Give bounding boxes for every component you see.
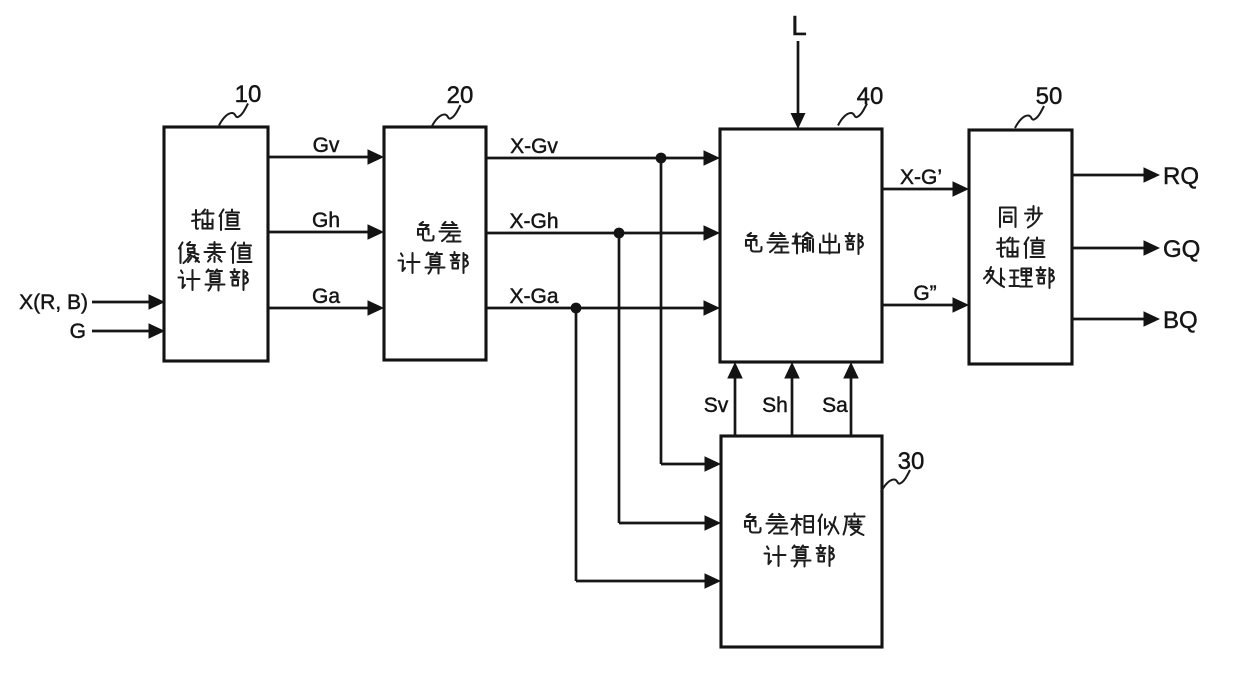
wire X-Ga with arrow into block 40 xyxy=(486,300,720,316)
wire X-Gv with arrow into block 40 xyxy=(486,150,720,166)
label X-Ga xyxy=(509,285,558,308)
wire Sa with up arrow into block 40 xyxy=(843,362,859,436)
output label GQ xyxy=(1163,236,1200,263)
svg-text:Gh: Gh xyxy=(312,209,340,232)
svg-text:Ga: Ga xyxy=(312,285,340,308)
block 50: synchronous interpolation processing unit (同步插值处理部) xyxy=(969,130,1072,364)
wire Gv with arrow xyxy=(268,149,384,165)
block 40: color difference output unit (色差输出部) xyxy=(720,129,882,362)
branch wire from X-Gv down and into block 30 xyxy=(661,158,721,472)
output wire GQ with arrow xyxy=(1072,240,1160,256)
svg-text:Sv: Sv xyxy=(704,394,729,417)
label Sa xyxy=(822,394,848,417)
svg-text:BQ: BQ xyxy=(1163,307,1198,334)
wire X-G&#8217; with arrow into block 50 xyxy=(882,181,969,197)
output label RQ xyxy=(1163,163,1199,190)
input label X(R, B) xyxy=(19,291,88,314)
svg-text:Gv: Gv xyxy=(313,134,340,157)
svg-text:X-Gh: X-Gh xyxy=(509,210,558,233)
branch wire from X-Gh down and into block 30 xyxy=(619,233,721,531)
svg-text:G: G xyxy=(70,320,86,343)
reference numeral 30 with leader xyxy=(881,448,924,492)
label Sv xyxy=(704,394,729,417)
branch wire from X-Ga down and into block 30 xyxy=(576,308,721,589)
output wire RQ with arrow xyxy=(1072,167,1160,183)
reference numeral 10 with leader xyxy=(219,81,261,126)
junction dot on X-Gv xyxy=(656,153,667,164)
label Gv xyxy=(313,134,340,157)
label X-Gh xyxy=(509,210,558,233)
svg-text:G”: G” xyxy=(913,282,936,305)
svg-text:30: 30 xyxy=(898,448,925,475)
input wire X(R, B) with arrow into block 10 xyxy=(92,294,165,310)
svg-text:X-Gv: X-Gv xyxy=(510,135,558,158)
wire Sh with up arrow into block 40 xyxy=(784,362,800,436)
label Ga xyxy=(312,285,340,308)
reference numeral 50 with leader xyxy=(1015,83,1062,128)
svg-text:X(R, B): X(R, B) xyxy=(19,291,88,314)
svg-text:GQ: GQ xyxy=(1163,236,1200,263)
label G&#8221; xyxy=(913,282,936,305)
svg-text:L: L xyxy=(791,10,807,41)
block 20: color difference calculation unit (色差计算部) xyxy=(384,127,486,360)
svg-text:10: 10 xyxy=(235,81,262,108)
input wire L with arrow into block 40 top xyxy=(791,41,806,129)
junction dot on X-Gh xyxy=(614,228,625,239)
reference numeral 20 with leader xyxy=(432,82,474,127)
reference numeral 40 with leader xyxy=(838,83,883,126)
svg-text:RQ: RQ xyxy=(1163,163,1199,190)
wire Gh with arrow xyxy=(268,224,384,240)
wire Sv with up arrow into block 40 xyxy=(727,362,743,436)
output label BQ xyxy=(1163,307,1198,334)
svg-text:Sh: Sh xyxy=(762,394,788,417)
svg-text:40: 40 xyxy=(857,83,884,110)
label X-Gv xyxy=(510,135,558,158)
wire G&#8221; with arrow into block 50 xyxy=(882,297,969,313)
label Gh xyxy=(312,209,340,232)
block 10: interpolated pixel value calculation unit (插值像素值计算部) xyxy=(164,127,268,361)
input label G xyxy=(70,320,86,343)
label Sh xyxy=(762,394,788,417)
svg-text:X-Ga: X-Ga xyxy=(509,285,558,308)
label L xyxy=(791,10,807,41)
output wire BQ with arrow xyxy=(1072,311,1160,327)
svg-text:Sa: Sa xyxy=(822,394,848,417)
wire Ga with arrow xyxy=(268,300,384,316)
input wire G with arrow into block 10 xyxy=(92,323,165,339)
label X-G&#8217; xyxy=(900,166,942,189)
svg-text:20: 20 xyxy=(447,82,474,109)
svg-text:50: 50 xyxy=(1036,83,1063,110)
junction dot on X-Ga xyxy=(571,303,582,314)
block 30: color difference similarity calculation unit (色差相似度计算部) xyxy=(721,436,882,647)
wire X-Gh with arrow into block 40 xyxy=(486,225,720,241)
svg-text:X-G’: X-G’ xyxy=(900,166,942,189)
